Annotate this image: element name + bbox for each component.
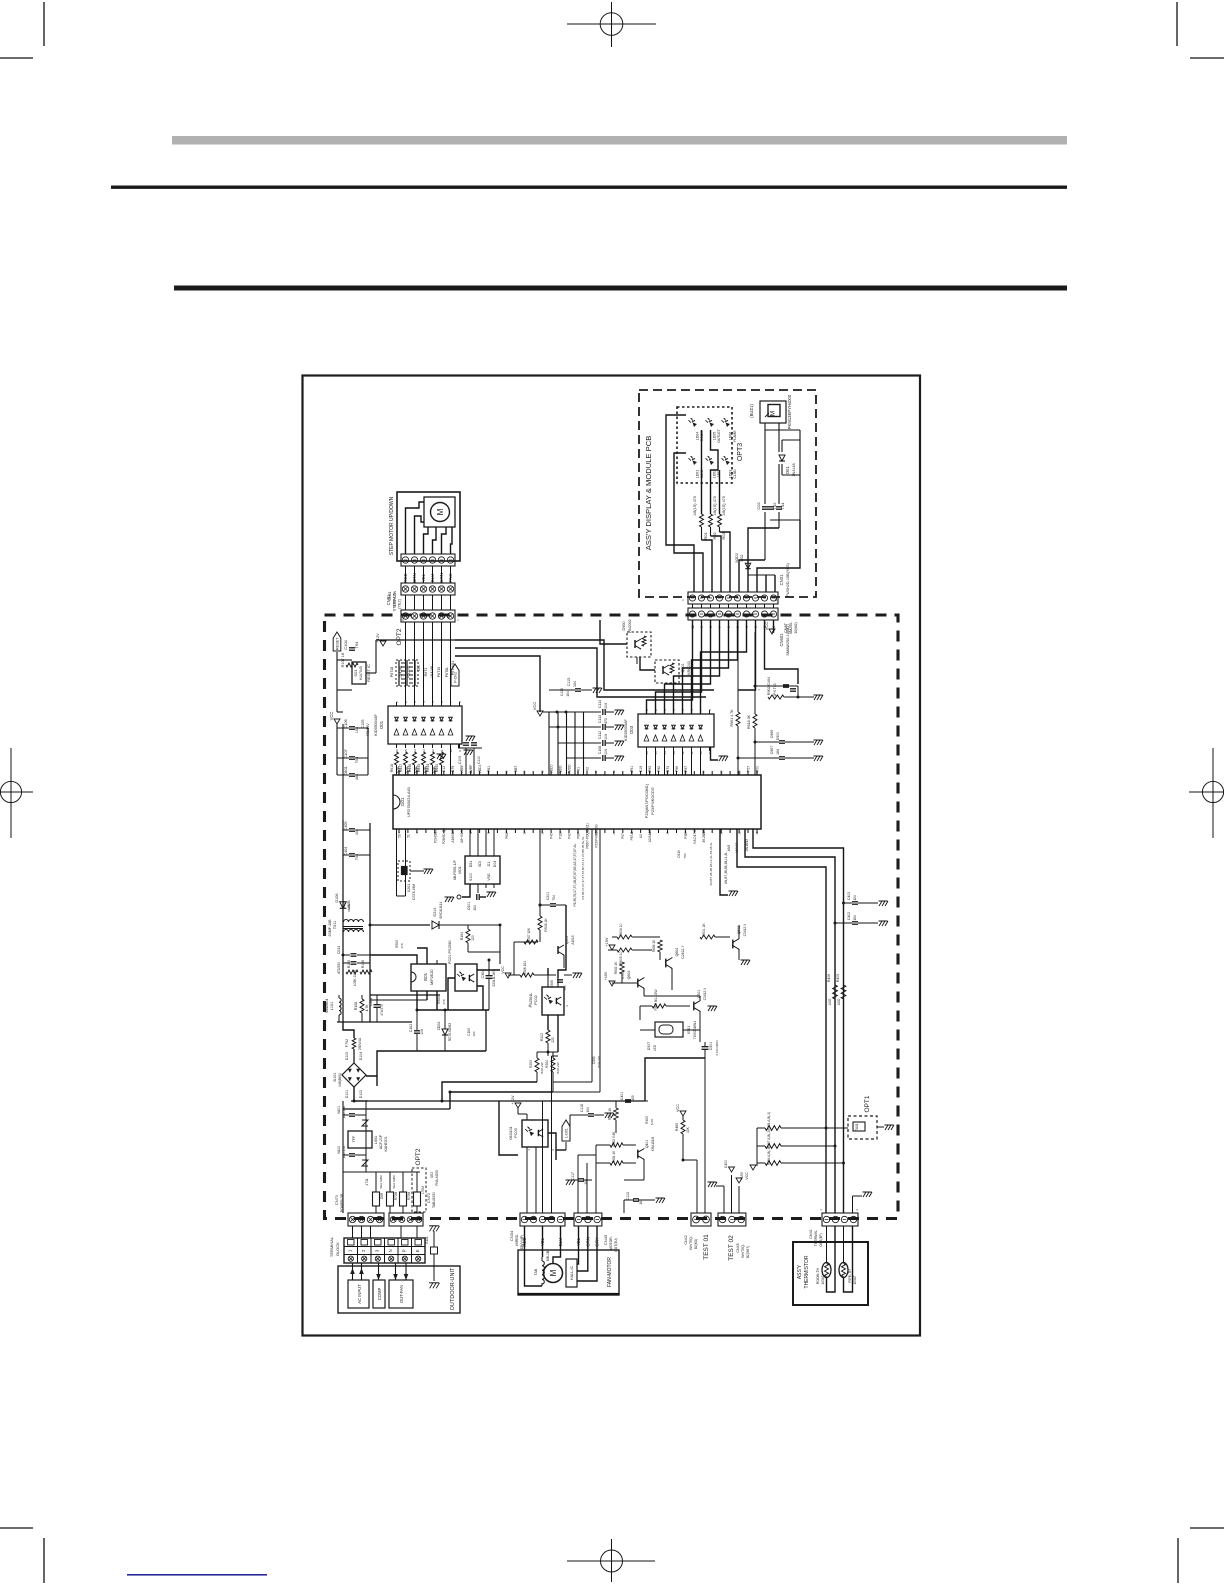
svg-text:C011: C011 xyxy=(337,946,341,954)
svg-text:CN45: CN45 xyxy=(736,1243,740,1252)
capacitor C406 row xyxy=(738,746,823,761)
svg-text:P6T8L: P6T8L xyxy=(445,667,449,678)
svg-text:SOD2: SOD2 xyxy=(735,553,739,563)
transistor array I201 KID65004AF xyxy=(374,702,462,748)
svg-text:C405: C405 xyxy=(344,821,348,830)
svg-text:MB-1B: MB-1B xyxy=(546,1250,550,1261)
svg-text:I501: I501 xyxy=(423,972,428,981)
svg-text:FLAME: FLAME xyxy=(733,430,737,442)
fan motor wires xyxy=(525,1226,598,1286)
svg-text:R901 4.7K: R901 4.7K xyxy=(730,709,734,727)
photocoupler PC02 xyxy=(529,987,564,1015)
thermistor TH2 PIPE xyxy=(839,1263,857,1285)
svg-text:A1: A1 xyxy=(639,834,643,838)
capacitor C114 xyxy=(598,700,624,715)
svg-text:250V/4A: 250V/4A xyxy=(358,1037,362,1050)
svg-text:A17/A7: A17/A7 xyxy=(735,843,739,854)
svg-text:P92: P92 xyxy=(657,766,661,772)
svg-text:C105: C105 xyxy=(361,719,365,728)
svg-text:VCC: VCC xyxy=(745,1172,749,1180)
svg-text:LD06: LD06 xyxy=(729,432,733,441)
display pcb internal wires xyxy=(666,415,800,592)
svg-text:104: 104 xyxy=(355,829,359,835)
svg-text:103AT: 103AT xyxy=(821,1275,825,1284)
svg-text:LD02: LD02 xyxy=(713,470,717,479)
resistor R03 xyxy=(718,496,727,540)
svg-text:D04: D04 xyxy=(493,861,497,867)
jumper J103 dashed xyxy=(407,660,422,686)
LED LD04 xyxy=(689,418,705,441)
thermistor ground stub xyxy=(853,1192,873,1213)
svg-text:P6T18: P6T18 xyxy=(390,667,394,678)
long vertical signal wires center xyxy=(554,829,601,1092)
svg-text:VSG: VSG xyxy=(487,873,491,881)
svg-text:ASD: ASD xyxy=(828,998,832,1005)
svg-text:C109: C109 xyxy=(458,756,462,764)
resistor network below I201 xyxy=(390,752,444,773)
svg-text:D19: D19 xyxy=(639,766,643,772)
svg-text:+15V: +15V xyxy=(604,971,608,980)
svg-text:(YE2): (YE2) xyxy=(398,598,402,608)
STEP MOTOR UP/DOWN assembly box xyxy=(389,492,460,561)
driver cluster R508 Q505 xyxy=(501,829,582,991)
fuse F602 xyxy=(379,1172,398,1213)
svg-text:104: 104 xyxy=(604,734,608,740)
svg-text:I201: I201 xyxy=(379,720,384,729)
jumper J101 dashed xyxy=(390,660,402,686)
svg-text:COMP: COMP xyxy=(377,1288,382,1301)
svg-text:CN8T: CN8T xyxy=(784,622,788,633)
OPT1 dashed box xyxy=(848,1116,894,1139)
crop mark bottom-left xyxy=(0,1528,44,1583)
transistor array I203 KID65003AF xyxy=(624,710,714,751)
svg-text:D15: D15 xyxy=(406,766,410,772)
thermistor TH1 ROOM xyxy=(816,1263,831,1285)
svg-text:D02: D02 xyxy=(740,555,744,562)
flag RESET xyxy=(333,632,341,651)
svg-text:AC INPUT: AC INPUT xyxy=(357,1284,362,1304)
svg-text:A1015: A1015 xyxy=(571,935,575,944)
resistor R105 R106 chain xyxy=(346,960,372,987)
svg-text:AVDD: AVDD xyxy=(568,764,572,774)
power supply wires xyxy=(343,925,500,1101)
capacitor C04 xyxy=(776,502,785,510)
svg-text:R431 A,B(-J): R431 A,B(-J) xyxy=(767,1112,771,1130)
svg-text:12: 12 xyxy=(681,751,685,755)
svg-text:VCC: VCC xyxy=(676,1104,680,1112)
svg-text:38.2B/1B: 38.2B/1B xyxy=(702,829,706,842)
svg-text:D79: D79 xyxy=(451,766,455,772)
svg-text:WH/TEQ-: WH/TEQ- xyxy=(689,1236,693,1250)
svg-text:S01: S01 xyxy=(353,669,358,677)
resonator X201 dashed xyxy=(397,829,434,900)
svg-text:LED: LED xyxy=(653,1044,657,1051)
photocoupler PC03 xyxy=(509,1120,548,1147)
svg-text:C501: C501 xyxy=(709,1042,713,1050)
diode D106 xyxy=(335,893,351,909)
svg-text:C104: C104 xyxy=(343,639,348,649)
connector CN34 fan power xyxy=(509,1213,565,1249)
svg-text:OPT3: OPT3 xyxy=(737,443,744,461)
connector CN81 STEP-CN cable side xyxy=(386,583,455,611)
svg-text:CN71: CN71 xyxy=(334,1194,339,1205)
svg-text:TAB: TAB xyxy=(534,1268,538,1275)
svg-text:1/8(1S) 470: 1/8(1S) 470 xyxy=(713,496,717,516)
svg-text:SMD/B04: SMD/B04 xyxy=(325,999,329,1014)
svg-text:R104: R104 xyxy=(460,932,464,941)
svg-text:KID65004AF: KID65004AF xyxy=(374,713,378,735)
svg-text:C900: C900 xyxy=(770,730,774,739)
pin numbers I201 xyxy=(395,701,462,753)
svg-text:P43: P43 xyxy=(424,766,428,772)
wires I601 to MCU xyxy=(470,829,494,856)
svg-text:Q603: Q603 xyxy=(627,971,631,980)
svg-text:P91: P91 xyxy=(630,766,634,772)
earth connection xyxy=(425,1226,440,1289)
svg-text:D201: D201 xyxy=(592,1056,596,1064)
capacitor C404 pair xyxy=(343,846,370,860)
main PCB dashed enclosure xyxy=(325,615,899,1219)
svg-text:M: M xyxy=(549,1269,558,1276)
svg-text:P6T15: P6T15 xyxy=(437,667,441,678)
svg-text:R403: R403 xyxy=(645,1116,649,1124)
svg-text:42: 42 xyxy=(594,770,598,774)
svg-text:LD04: LD04 xyxy=(696,432,700,441)
bypass capacitor bank above MCU xyxy=(543,711,601,776)
svg-text:ACP-20P: ACP-20P xyxy=(379,1134,383,1149)
zener ZD02 xyxy=(437,1010,452,1051)
svg-text:TERMINAL: TERMINAL xyxy=(329,1236,334,1257)
left rail wires power section xyxy=(343,820,370,1022)
svg-text:RB7: RB7 xyxy=(514,766,518,773)
power resistors R203 R204 xyxy=(529,1052,560,1092)
svg-text:MIP2E2D: MIP2E2D xyxy=(430,969,434,985)
svg-text:TEST 01: TEST 01 xyxy=(703,1234,710,1260)
svg-text:R401 1K: R401 1K xyxy=(608,1107,612,1120)
svg-text:C108: C108 xyxy=(598,746,602,755)
svg-text:ASS'Y: ASS'Y xyxy=(797,1264,803,1279)
svg-text:M: M xyxy=(436,508,445,515)
shift register I601 MLF595 xyxy=(453,852,500,888)
diode D01 xyxy=(779,455,796,477)
filter block L601 xyxy=(348,1131,388,1151)
ground at I201 xyxy=(459,748,474,755)
svg-text:184: 184 xyxy=(853,915,857,921)
svg-text:C801: C801 xyxy=(343,765,348,775)
fan connector risers xyxy=(543,1056,559,1213)
svg-text:104: 104 xyxy=(604,703,608,709)
svg-text:R427 A,B(-J): R427 A,B(-J) xyxy=(767,1130,771,1148)
label OPT3 xyxy=(737,443,744,461)
svg-text:P6.36,76,17,37,4B,67,87,B5,A5,: P6.36,76,17,37,4B,67,87,B5,A5,17,57,67.A… xyxy=(573,843,577,906)
wires PC03 xyxy=(527,1133,566,1213)
svg-text:10(M2): 10(M2) xyxy=(794,622,798,633)
svg-text:R108: R108 xyxy=(354,1002,358,1011)
svg-text:T04: T04 xyxy=(780,502,785,510)
svg-text:R506 104: R506 104 xyxy=(523,961,527,975)
svg-text:ON3131: ON3131 xyxy=(509,1126,513,1139)
svg-text:R70M: R70M xyxy=(394,1191,398,1200)
svg-text:C107: C107 xyxy=(343,748,348,758)
svg-text:C619: C619 xyxy=(677,850,681,858)
svg-text:P00: P00 xyxy=(756,766,760,772)
svg-text:D4: D4 xyxy=(416,665,421,671)
svg-text:LD03: LD03 xyxy=(729,470,733,479)
outdoor unit box xyxy=(338,1266,460,1313)
svg-text:R404 1K: R404 1K xyxy=(612,1150,616,1163)
svg-text:WIRED-: WIRED- xyxy=(515,1234,519,1246)
option resistors R431 R427 R434 xyxy=(745,1112,848,1180)
svg-text:C2412-Y: C2412-Y xyxy=(743,923,747,936)
svg-text:CN01: CN01 xyxy=(779,574,784,585)
resistor R108 xyxy=(354,995,369,1022)
svg-text:N: N xyxy=(388,1249,393,1252)
label OPT2 top xyxy=(396,628,403,645)
registration target right-center xyxy=(1189,748,1224,838)
svg-text:VCC: VCC xyxy=(501,966,505,974)
svg-text:VDD1: VDD1 xyxy=(478,764,482,773)
svg-text:1/8(1S) 470: 1/8(1S) 470 xyxy=(693,496,697,516)
svg-text:WH/TEQ-: WH/TEQ- xyxy=(741,1244,745,1258)
svg-text:C2412-Y: C2412-Y xyxy=(681,945,685,959)
svg-text:C115: C115 xyxy=(560,688,564,696)
svg-text:HALL-IC: HALL-IC xyxy=(570,1265,574,1280)
svg-text:R508 1K: R508 1K xyxy=(544,918,548,932)
svg-text:OUT-FAN: OUT-FAN xyxy=(399,1285,404,1303)
svg-text:CST4.19M: CST4.19M xyxy=(412,884,416,900)
svg-text:TA01: TA01 xyxy=(855,1123,859,1131)
flag VCC cap bank xyxy=(532,702,543,716)
wires connectors to terminal block xyxy=(353,1226,418,1238)
long rail wires center xyxy=(343,1058,705,1155)
svg-text:11: 11 xyxy=(690,751,694,754)
crop mark top-left xyxy=(0,2,44,58)
svg-text:16: 16 xyxy=(645,751,649,755)
svg-text:M: M xyxy=(770,411,777,416)
svg-text:D102: D102 xyxy=(359,1090,363,1098)
line filter LF01 xyxy=(328,919,364,937)
connector CN82 board side xyxy=(401,610,455,622)
svg-text:Q401: Q401 xyxy=(645,1140,649,1148)
svg-text:ASD: ASD xyxy=(837,998,841,1005)
svg-text:R504: R504 xyxy=(437,996,441,1004)
svg-text:C304: C304 xyxy=(481,969,485,978)
thermistor assembly box xyxy=(793,1242,868,1305)
svg-text:E101: E101 xyxy=(425,1236,429,1244)
svg-text:P45: P45 xyxy=(550,833,554,839)
svg-text:3.8-D17.A7: 3.8-D17.A7 xyxy=(693,828,697,844)
svg-text:15: 15 xyxy=(523,831,527,835)
svg-text:51: 51 xyxy=(406,834,410,838)
svg-text:D01: D01 xyxy=(785,465,790,473)
label R618 column xyxy=(424,666,441,678)
svg-text:KIA7045: KIA7045 xyxy=(359,666,363,680)
svg-text:PKM13EPYH4000: PKM13EPYH4000 xyxy=(787,394,792,429)
svg-text:P-CN1: P-CN1 xyxy=(454,672,458,683)
svg-text:R604 10: R604 10 xyxy=(619,923,623,936)
svg-text:F702: F702 xyxy=(345,1039,349,1047)
transistor Q902 dashed box xyxy=(622,619,651,657)
svg-text:R105: R105 xyxy=(347,960,351,968)
svg-text:104: 104 xyxy=(853,895,857,901)
connector CN601 main side xyxy=(688,608,790,656)
svg-text:P57: P57 xyxy=(747,766,751,772)
svg-text:AN18/19: AN18/19 xyxy=(745,839,749,852)
svg-text:VDD: VDD xyxy=(559,765,563,773)
svg-text:1PX T03: 1PX T03 xyxy=(773,683,777,696)
power IC I501 MIP2E2D xyxy=(411,960,446,995)
svg-text:MOTOR-: MOTOR- xyxy=(609,1236,613,1250)
svg-text:I601: I601 xyxy=(457,865,462,874)
svg-text:103AT: 103AT xyxy=(853,1275,857,1284)
resistor R107 xyxy=(341,652,358,667)
LED LD06 xyxy=(722,418,738,442)
svg-text:PNA-M250: PNA-M250 xyxy=(435,1170,439,1186)
svg-text:KRC243: KRC243 xyxy=(687,661,691,675)
svg-text:30: 30 xyxy=(702,770,706,774)
svg-text:RN2002: RN2002 xyxy=(628,619,632,632)
svg-text:ZNR: ZNR xyxy=(380,1192,384,1199)
wires bridge xyxy=(354,1010,486,1101)
resistor R02 xyxy=(709,496,718,540)
svg-text:104: 104 xyxy=(586,1107,590,1113)
svg-text:US2B: US2B xyxy=(347,904,351,912)
svg-text:ZD02: ZD02 xyxy=(437,1022,441,1031)
svg-text:B1K-2W: B1K-2W xyxy=(556,1062,560,1073)
svg-text:C103: C103 xyxy=(467,1028,471,1036)
registration target left-center xyxy=(0,748,33,838)
step motor winding wires xyxy=(406,502,453,554)
svg-text:FAN-MOTOR: FAN-MOTOR xyxy=(607,1257,613,1287)
svg-text:R6T1: R6T1 xyxy=(424,668,428,677)
svg-text:VCC: VCC xyxy=(764,622,769,631)
svg-text:473: 473 xyxy=(604,718,608,724)
svg-text:STEP8-CN: STEP8-CN xyxy=(393,590,397,606)
MCU pin number labels top xyxy=(398,764,760,774)
svg-text:R465: R465 xyxy=(675,1123,679,1131)
svg-text:39: 39 xyxy=(737,831,741,835)
OUT-FAN box xyxy=(389,1280,413,1308)
svg-text:R606 1K: R606 1K xyxy=(652,939,656,952)
svg-text:C02: C02 xyxy=(756,502,761,510)
svg-text:BLOCK: BLOCK xyxy=(335,1242,340,1256)
wires Q901 Q902 into bus xyxy=(600,620,655,670)
svg-text:CN43: CN43 xyxy=(603,1234,608,1245)
svg-text:14: 14 xyxy=(663,751,667,755)
svg-text:R902 C404: R902 C404 xyxy=(767,677,771,695)
svg-text:D106: D106 xyxy=(335,893,339,902)
label OPT1 xyxy=(864,1095,871,1112)
svg-text:PIPE-TH: PIPE-TH xyxy=(848,1269,852,1283)
svg-text:PC02: PC02 xyxy=(534,995,538,1005)
svg-text:104: 104 xyxy=(472,1031,476,1036)
svg-text:OUT(4P): OUT(4P) xyxy=(819,1233,823,1247)
terminal to outdoor wires with arrows xyxy=(350,1263,408,1280)
svg-text:B101: B101 xyxy=(333,1073,337,1082)
label CN601 part number xyxy=(784,621,798,634)
svg-text:A2/A5A7: A2/A5A7 xyxy=(648,829,652,842)
svg-text:D103: D103 xyxy=(345,1052,349,1060)
resistor R104 xyxy=(460,925,475,952)
capacitor C103 xyxy=(343,765,359,780)
svg-text:Q505: Q505 xyxy=(565,936,569,944)
svg-text:R70M: R70M xyxy=(407,1191,411,1200)
svg-text:LD05: LD05 xyxy=(713,432,717,441)
svg-text:104: 104 xyxy=(563,985,567,990)
connector TEST 01 xyxy=(684,1213,711,1250)
svg-text:C112: C112 xyxy=(598,731,602,739)
svg-text:C402: C402 xyxy=(847,912,851,920)
capacitor C405 row xyxy=(755,730,823,745)
resistor R903 xyxy=(747,632,757,775)
svg-text:R501 1K: R501 1K xyxy=(702,923,706,937)
svg-text:T04: T04 xyxy=(355,854,359,860)
svg-text:4.7UF/400V: 4.7UF/400V xyxy=(715,1040,719,1056)
microcontroller I101 uPD780024 xyxy=(393,771,761,833)
inductor L101 xyxy=(325,995,341,1022)
zener D02 SOD2 xyxy=(735,553,751,569)
svg-text:R402 5.6K: R402 5.6K xyxy=(612,1131,616,1147)
flag +12V top xyxy=(375,633,386,646)
svg-text:+15V: +15V xyxy=(740,1171,744,1180)
registration target bottom-center xyxy=(567,1539,655,1582)
svg-text:SE2: SE2 xyxy=(430,1172,434,1178)
LED LD05 xyxy=(706,418,722,443)
svg-text:R507 10K: R507 10K xyxy=(527,927,531,942)
svg-text:BYD8-B14: BYD8-B14 xyxy=(439,902,443,919)
wire TEST01 pin2 xyxy=(704,1058,706,1213)
label CN7 SMART-AC xyxy=(430,1170,439,1186)
svg-text:1N4148: 1N4148 xyxy=(399,666,403,678)
svg-text:104: 104 xyxy=(420,1029,424,1035)
svg-text:L101: L101 xyxy=(330,1002,334,1010)
label TEST 02 xyxy=(728,1235,750,1261)
svg-text:D900: D900 xyxy=(622,621,626,630)
svg-text:T64: T64 xyxy=(354,641,359,649)
LED LD03 xyxy=(722,456,738,479)
svg-text:C907: C907 xyxy=(770,746,774,755)
svg-text:OUTLET: OUTLET xyxy=(717,429,721,442)
svg-text:C117: C117 xyxy=(571,1172,575,1180)
svg-text:P42: P42 xyxy=(568,833,572,839)
capacitor T02 xyxy=(768,502,777,510)
fan motor box xyxy=(518,1250,619,1295)
junction dots xyxy=(342,685,828,1162)
crystal circuit at MCU xyxy=(458,736,482,775)
capacitor C101 xyxy=(369,995,384,1022)
svg-text:D507: D507 xyxy=(647,1042,651,1050)
gray header bar xyxy=(172,136,1067,145)
svg-text:474/275: 474/275 xyxy=(380,1004,384,1016)
capacitor C601 at I601 xyxy=(445,884,497,911)
wires step connector to CN81 xyxy=(406,566,451,583)
svg-text:VREF: VREF xyxy=(460,764,464,773)
driver Q401 cluster xyxy=(566,1092,666,1213)
capacitor C116 xyxy=(598,746,624,761)
connector CN43 fan feedback xyxy=(574,1213,618,1252)
step motor M xyxy=(431,503,450,522)
svg-text:C114: C114 xyxy=(598,700,602,708)
svg-text:R503: R503 xyxy=(395,940,399,948)
label pin cluster below MCU xyxy=(573,843,728,906)
svg-text:C106: C106 xyxy=(343,718,348,728)
flag P-CN1 xyxy=(445,661,459,686)
capacitor C106 xyxy=(343,718,370,736)
svg-text:C118: C118 xyxy=(580,1104,584,1112)
svg-text:B2(M2): B2(M2) xyxy=(694,1239,698,1249)
connector CN72 load output xyxy=(389,1192,436,1226)
svg-text:CN81: CN81 xyxy=(388,591,392,600)
